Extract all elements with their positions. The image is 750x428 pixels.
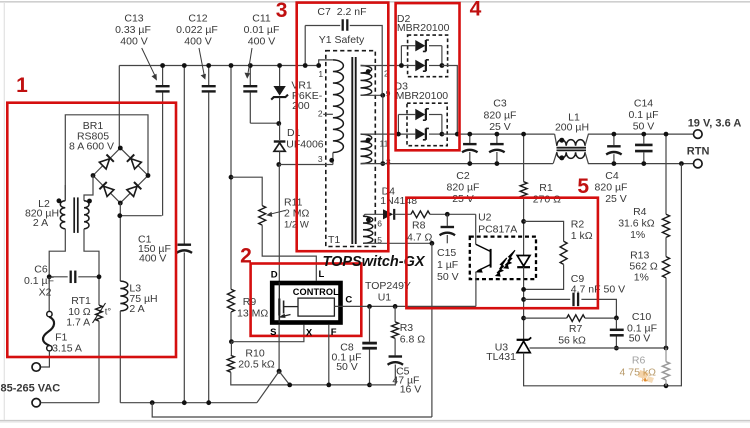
wire C pin line [334, 305, 476, 307]
svg-text:Y1 Safety: Y1 Safety [319, 34, 365, 46]
light arrows U2 [505, 250, 515, 265]
wire primary + bus [119, 65, 318, 67]
wire L1 right bends [585, 134, 693, 146]
svg-text:C13: C13 [124, 13, 143, 25]
wire sec2 top lead [361, 133, 399, 135]
wire F1 to line terminal [41, 351, 50, 367]
red box 2 [251, 264, 362, 336]
wire R7 right lead [585, 317, 617, 319]
svg-text:0.33 µF: 0.33 µF [115, 24, 151, 36]
wire neutral to RT1 [41, 402, 99, 404]
capacitor C2 [469, 134, 471, 143]
core L2 [73, 197, 75, 233]
svg-text:0.1 µF: 0.1 µF [24, 275, 54, 287]
diode D3 lower [415, 128, 425, 139]
svg-text:0.01 µF: 0.01 µF [244, 24, 280, 36]
svg-text:20.5 kΩ: 20.5 kΩ [238, 359, 275, 371]
node source junction [277, 369, 282, 374]
wire rail A [120, 402, 257, 404]
ic U1 TOPSwitch box [272, 283, 340, 323]
wire source bottom return [152, 403, 432, 417]
ic U1 control block [298, 298, 334, 316]
node bias phase dot [366, 217, 371, 222]
svg-text:25 V: 25 V [489, 121, 511, 133]
node rail A C13-return [150, 400, 155, 405]
svg-text:S: S [270, 327, 276, 338]
node ref R13 [664, 346, 669, 351]
wire pin3 exit [332, 153, 334, 165]
svg-text:C11: C11 [252, 13, 271, 25]
resistor R7 [567, 315, 585, 322]
svg-text:200: 200 [292, 100, 310, 112]
node rail A C12 [206, 400, 211, 405]
svg-text:F: F [331, 327, 337, 338]
resistor R4 [662, 214, 669, 237]
node L1 bottom phase dot [559, 155, 564, 160]
node BR1 right vertex [146, 173, 151, 178]
capacitor C11 [249, 67, 251, 85]
svg-text:X2: X2 [39, 287, 52, 299]
svg-text:❧: ❧ [641, 375, 649, 385]
wire R1 to LED [523, 198, 525, 221]
node L2 right phase dot [87, 199, 92, 204]
wire F pin [328, 325, 330, 385]
winding T1 secondary1 [361, 66, 372, 96]
node C15 top [445, 212, 450, 217]
wire R2 bottom link [524, 264, 564, 289]
node LED anode [521, 219, 526, 224]
node C9 tap [521, 297, 526, 302]
winding T1 bias [363, 216, 373, 243]
svg-text:R4: R4 [633, 206, 647, 218]
wire TL431 ref line [530, 347, 667, 349]
inductor L1 top winding [557, 140, 585, 146]
node drain junction [276, 162, 281, 167]
node RTN branch [679, 161, 684, 166]
wire S pin [278, 325, 280, 372]
resistor R9 [228, 289, 235, 312]
svg-text:1: 1 [16, 74, 28, 97]
wire D3 cathode bracket [429, 114, 442, 116]
arrow C11 [248, 48, 252, 75]
node D2 join [455, 132, 460, 137]
wire R13 to ref [665, 278, 667, 348]
diode D2 lower [415, 60, 425, 71]
diode BR1 lower-right [127, 182, 142, 197]
terminal RTN [694, 159, 703, 168]
diode D3 upper [415, 109, 425, 120]
svg-text:2.2 nF: 2.2 nF [337, 6, 367, 18]
svg-text:50 V: 50 V [437, 271, 459, 283]
inductor L2 left winding [60, 201, 65, 229]
winding T1 primary [333, 60, 344, 153]
thermistor RT1 [96, 305, 103, 321]
node R11 tap [229, 175, 234, 180]
svg-text:3: 3 [318, 154, 323, 164]
node R6 bottom [664, 383, 669, 388]
resistor R1 [520, 182, 527, 199]
svg-text:R2: R2 [571, 219, 585, 231]
diode BR1 lower-left [99, 182, 114, 197]
svg-text:U2: U2 [478, 212, 492, 224]
svg-text:PC817A: PC817A [478, 224, 517, 236]
svg-text:4: 4 [470, 0, 482, 21]
node C8 tap [367, 304, 372, 309]
capacitor C3 [496, 134, 498, 143]
optocoupler U2 dashed box [470, 237, 536, 280]
wire R4 riser [665, 134, 667, 214]
wire pin2 tap stub [323, 113, 333, 115]
inductor L2 right winding [84, 201, 89, 229]
wire source diagonal to rail A [257, 371, 279, 402]
rectifier D2 dashed box [408, 35, 448, 77]
wire R4-R13 [665, 237, 667, 256]
wire L3 to rail A [119, 311, 121, 403]
wire C9 left [524, 298, 571, 300]
svg-text:0.1 µF: 0.1 µF [629, 109, 659, 121]
svg-text:31.6 kΩ: 31.6 kΩ [618, 218, 655, 230]
svg-text:t°: t° [105, 307, 112, 318]
arrow C12 [199, 48, 204, 76]
wire D2 cathode bracket [429, 45, 442, 47]
wire D2 out to + rail [442, 66, 457, 135]
wire sec1 top lead [361, 65, 402, 67]
svg-text:25 V: 25 V [605, 193, 627, 205]
wire C15 return drop [431, 243, 433, 417]
svg-text:C4: C4 [605, 170, 619, 182]
arrow C13 [142, 48, 156, 76]
svg-text:400 V: 400 V [120, 36, 147, 48]
svg-text:R1: R1 [539, 182, 553, 194]
shunt regulator U3 TL431 [517, 339, 529, 341]
bridge rectifier BR1 diamond [93, 148, 148, 203]
svg-text:1 kΩ: 1 kΩ [571, 230, 593, 242]
wire R10 bottom to rail B [231, 372, 370, 385]
node VR1/D1/C11 [276, 121, 281, 126]
capacitor C15 [446, 214, 448, 226]
wire L1 left bends [555, 134, 557, 146]
diode D1 [279, 124, 281, 141]
wire R2 top link [524, 221, 564, 241]
capacitor C12 [208, 67, 210, 85]
svg-text:820 µF: 820 µF [595, 182, 628, 194]
capacitor C5 [389, 355, 403, 357]
svg-text:C10: C10 [632, 311, 651, 323]
terminal AC line [32, 363, 40, 371]
svg-text:50 V: 50 V [336, 361, 358, 373]
node BR1 left vertex [91, 173, 96, 178]
svg-text:400 V: 400 V [139, 253, 166, 265]
wire C7 to secondary return [350, 26, 382, 96]
svg-text:R7: R7 [569, 323, 583, 335]
svg-text:2 A: 2 A [129, 303, 144, 315]
svg-text:0.022 µF: 0.022 µF [176, 24, 218, 36]
diode D2 upper [415, 40, 425, 51]
node BR1 - vertex [118, 201, 123, 206]
resistor R3 [394, 306, 396, 322]
wire R8 to C15 node [430, 213, 476, 215]
wire L2 left vertex lead [84, 176, 93, 201]
wire bias top lead [363, 214, 383, 216]
svg-text:6: 6 [377, 219, 382, 229]
svg-text:RTN: RTN [687, 146, 710, 158]
node R7/C9/C10 [614, 316, 619, 321]
capacitor C7 [342, 19, 344, 31]
node R7 left [521, 316, 526, 321]
svg-text:R3: R3 [400, 322, 414, 334]
arrow R11 [270, 211, 285, 215]
svg-text:3: 3 [276, 0, 288, 22]
capacitor C1 [183, 66, 185, 244]
svg-text:MBR20100: MBR20100 [397, 22, 450, 34]
red box 1 [7, 103, 176, 357]
svg-text:13 MΩ: 13 MΩ [237, 308, 268, 320]
wire opto LED cathode [523, 267, 525, 339]
svg-text:6.8 Ω: 6.8 Ω [400, 334, 426, 346]
wire D3 anode bracket [397, 115, 399, 135]
page border frame [0, 1, 750, 3]
svg-text:C7: C7 [317, 6, 331, 18]
wire RTN sense drop [666, 164, 681, 386]
wire TL431 anode [524, 353, 666, 386]
resistor R10 [227, 355, 234, 372]
svg-text:4.7 Ω: 4.7 Ω [407, 232, 433, 244]
zener VR1 [273, 86, 285, 96]
resistor R13 [662, 257, 669, 278]
svg-text:TL431: TL431 [486, 351, 516, 363]
wire tap to R11 [231, 177, 262, 205]
capacitor C13 [162, 67, 164, 85]
core L1 [557, 147, 587, 149]
node L1 top phase dot [559, 138, 564, 143]
svg-text:1.7 A: 1.7 A [66, 317, 90, 329]
svg-text:TOPSwitch-GX: TOPSwitch-GX [323, 254, 426, 270]
wire RTN rail [383, 163, 553, 165]
wire output + rail [442, 133, 555, 135]
svg-text:1%: 1% [630, 229, 645, 241]
resistor R2 [560, 241, 567, 264]
wire BR1 minus to C13 node [119, 203, 121, 281]
wire R9 line from bus [230, 66, 232, 290]
phototransistor U2 [490, 249, 492, 268]
svg-text:C3: C3 [493, 98, 507, 110]
node R3 tap [393, 304, 398, 309]
svg-text:1%: 1% [634, 272, 649, 284]
mosfet U1 internal [278, 282, 280, 299]
node sec1 bottom [380, 93, 385, 98]
wire BR1 outer loop [65, 115, 148, 201]
diode D4 [383, 209, 393, 219]
node L2 left phase dot [57, 198, 62, 203]
diode BR1 upper-right [127, 154, 142, 169]
svg-text:8 A 600 V: 8 A 600 V [69, 141, 114, 153]
node BR1 + vertex [118, 146, 123, 151]
wire opto emitter [475, 272, 477, 307]
resistor R6 faded [662, 362, 669, 380]
svg-text:D: D [271, 270, 278, 281]
node sec2 bottom joint [380, 161, 385, 166]
led U2 diode [517, 256, 530, 267]
rectifier D3 dashed box [407, 103, 447, 146]
svg-text:C14: C14 [634, 98, 653, 110]
terminal AC neutral [32, 399, 40, 407]
wire R10 top [230, 342, 232, 356]
wire RT1 to neutral [98, 321, 100, 403]
node sec2 phase dot [366, 138, 371, 143]
wire C7 bus tap [304, 26, 306, 66]
svg-text:16 V: 16 V [400, 384, 422, 396]
wire sec2 bottom lead [361, 163, 383, 165]
svg-text:T1: T1 [328, 234, 340, 246]
wire bias bottom lead [363, 242, 432, 244]
capacitor C4 [613, 134, 615, 145]
wire D2 anode bracket [400, 46, 402, 66]
svg-text:820 µF: 820 µF [484, 110, 517, 122]
wire sec1 bottom lead [361, 94, 383, 96]
svg-text:2: 2 [240, 245, 252, 268]
wire R11 to L pin [262, 225, 316, 281]
wire opto LED anode [523, 221, 525, 255]
svg-text:56 kΩ: 56 kΩ [558, 335, 586, 347]
svg-text:C2: C2 [456, 170, 470, 182]
svg-text:R6: R6 [632, 355, 646, 367]
node sec1 phase dot [366, 69, 371, 74]
wire X pin link [231, 325, 304, 342]
node primary phase dot [329, 158, 334, 163]
node rail A C1 [182, 400, 187, 405]
transformer T1 dashed box [326, 51, 376, 247]
core T1 [351, 57, 353, 244]
svg-text:19 V, 3.6 A: 19 V, 3.6 A [688, 118, 742, 130]
svg-text:400 V: 400 V [184, 36, 211, 48]
svg-text:MBR20100: MBR20100 [396, 90, 449, 102]
svg-text:C: C [345, 294, 352, 305]
wire R7 left lead [524, 317, 567, 319]
svg-text:820 µF: 820 µF [447, 182, 480, 194]
wire sec joint vertical [382, 95, 384, 163]
svg-text:D1: D1 [287, 127, 301, 139]
resistor R8 [411, 211, 430, 218]
svg-text:TOP249Y: TOP249Y [365, 280, 411, 292]
node LED cathode R2 [521, 287, 526, 292]
wire pin1 jog [319, 60, 333, 66]
wire R1 riser [523, 134, 525, 182]
capacitor C6 [49, 276, 67, 278]
svg-text:2 A: 2 A [33, 217, 48, 229]
node rail B diagonal join [287, 383, 292, 388]
wire C9 right [581, 299, 616, 318]
svg-text:400 V: 400 V [248, 36, 275, 48]
svg-text:C15: C15 [437, 247, 456, 259]
svg-text:1: 1 [318, 69, 323, 79]
svg-text:L: L [319, 269, 325, 280]
wire bus drop to bridge [118, 66, 120, 149]
fuse F1 [47, 311, 52, 316]
svg-text:2: 2 [318, 109, 323, 119]
wire L2 right bottom to RT1 node [84, 229, 99, 305]
node F rail join [326, 383, 331, 388]
svg-text:4 75 kΩ: 4 75 kΩ [620, 367, 657, 379]
svg-text:U1: U1 [378, 292, 392, 304]
svg-text:50 V: 50 V [633, 121, 655, 133]
capacitor C8 [369, 306, 371, 341]
winding T1 secondary2 [361, 134, 372, 164]
capacitor C14 [643, 134, 645, 143]
svg-text:UF4006: UF4006 [286, 139, 324, 151]
svg-text:C6: C6 [34, 264, 48, 276]
inductor L1 bottom winding [557, 152, 585, 158]
wire VR1 from bus [279, 66, 281, 87]
resistor R11 [259, 206, 266, 226]
red box 3 [297, 3, 389, 252]
red box 5 [406, 198, 598, 309]
svg-text:1 µF: 1 µF [437, 259, 458, 271]
diode BR1 upper-left [99, 154, 114, 169]
wire L2 left bottom to fuse node [49, 229, 65, 314]
red box 4 [396, 3, 460, 150]
capacitor C9 [572, 293, 574, 307]
wire drain to D pin [278, 165, 280, 283]
svg-text:85-265 VAC: 85-265 VAC [1, 383, 61, 395]
svg-text:50 V: 50 V [629, 333, 651, 345]
svg-text:X: X [306, 328, 313, 339]
svg-text:200 µH: 200 µH [555, 122, 589, 134]
capacitor C10 [615, 318, 617, 329]
inductor L3 [120, 281, 128, 311]
node C15 return [430, 241, 435, 246]
svg-text:R8: R8 [412, 220, 426, 232]
svg-text:C12: C12 [188, 13, 207, 25]
wire source diagonal to rail B [279, 371, 290, 385]
svg-text:25 V: 25 V [452, 193, 474, 205]
wire R9 to R10 node [230, 312, 232, 342]
svg-text:5: 5 [577, 175, 589, 198]
svg-text:CONTROL: CONTROL [293, 287, 339, 297]
terminal +19V [694, 130, 703, 139]
svg-text:270 Ω: 270 Ω [533, 194, 561, 206]
svg-text:3.15 A: 3.15 A [52, 343, 82, 355]
node R9/R10/X junction [229, 339, 234, 344]
wire opto collector [475, 214, 477, 244]
